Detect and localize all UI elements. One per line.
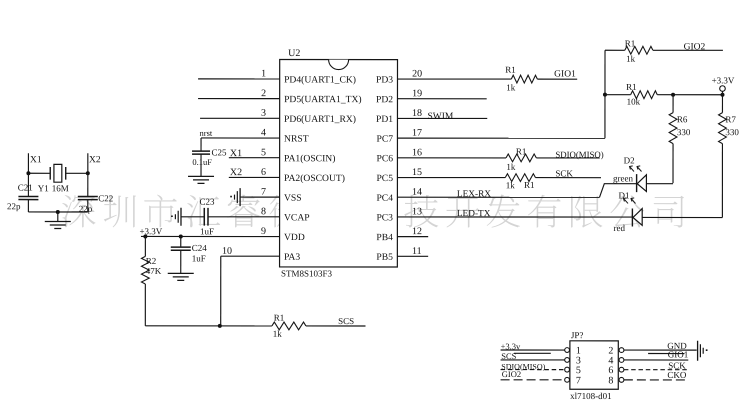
svg-text:+3.3v: +3.3v xyxy=(501,341,521,351)
svg-text:R6: R6 xyxy=(677,114,688,124)
ground (sideways right) xyxy=(697,341,699,361)
svg-text:1k: 1k xyxy=(506,162,516,172)
svg-text:GIO2: GIO2 xyxy=(684,42,706,52)
svg-text:1: 1 xyxy=(261,68,266,79)
svg-text:R1: R1 xyxy=(626,82,637,92)
crystal Y1 16M xyxy=(49,167,51,180)
wire xyxy=(28,211,87,213)
net GIO1 xyxy=(537,78,577,80)
node X2 xyxy=(87,153,89,173)
svg-text:NRST: NRST xyxy=(284,134,309,145)
svg-text:PA2(OSCOUT): PA2(OSCOUT) xyxy=(284,173,345,184)
svg-text:LED-TX: LED-TX xyxy=(457,209,491,219)
svg-text:PB5: PB5 xyxy=(376,252,393,263)
resistor R1 1k (SCK) xyxy=(505,174,535,182)
watermark text 深圳市汇睿微通科技开发有限公司 xyxy=(62,194,684,228)
svg-text:STM8S103F3: STM8S103F3 xyxy=(281,268,333,278)
svg-text:11: 11 xyxy=(412,246,422,257)
svg-text:12: 12 xyxy=(412,226,422,237)
svg-text:VSS: VSS xyxy=(284,193,302,204)
junction xyxy=(218,324,222,328)
junction xyxy=(179,234,183,238)
svg-text:14: 14 xyxy=(412,187,422,198)
net SCS xyxy=(306,325,366,327)
wire SDIO(MISO) to pin5 (dashed) xyxy=(501,369,565,371)
svg-text:PC4: PC4 xyxy=(376,193,393,204)
svg-text:+3.3V: +3.3V xyxy=(139,226,162,236)
svg-text:PC3: PC3 xyxy=(376,212,393,223)
svg-text:PD6(UART1_RX): PD6(UART1_RX) xyxy=(284,114,356,125)
wire pin4 xyxy=(624,359,688,361)
svg-text:2: 2 xyxy=(261,88,266,99)
svg-text:SCS: SCS xyxy=(501,351,516,361)
svg-text:X2: X2 xyxy=(230,167,242,178)
IC U2 STM8S103F3 xyxy=(280,60,398,267)
net LED-TX / wire pin13 xyxy=(397,216,632,218)
svg-text:330: 330 xyxy=(677,127,691,137)
svg-text:10: 10 xyxy=(222,246,232,257)
svg-text:1k: 1k xyxy=(273,329,283,339)
net GIO1 xyxy=(648,352,684,354)
svg-text:+3.3V: +3.3V xyxy=(712,75,735,85)
svg-text:R7: R7 xyxy=(725,114,736,124)
resistor R2 47K xyxy=(144,236,146,256)
svg-text:1k: 1k xyxy=(626,54,636,64)
svg-text:PD2: PD2 xyxy=(376,94,393,105)
svg-text:SWIM: SWIM xyxy=(427,112,453,122)
svg-text:6: 6 xyxy=(261,167,266,178)
svg-text:PD1: PD1 xyxy=(376,114,393,125)
svg-text:JP?: JP? xyxy=(571,330,584,340)
svg-text:X2: X2 xyxy=(89,155,101,165)
net LEX-RX / wire pin14 xyxy=(397,196,599,198)
svg-text:PA1(OSCIN): PA1(OSCIN) xyxy=(284,153,335,164)
wire pin3 xyxy=(200,117,280,119)
svg-text:20: 20 xyxy=(412,69,422,80)
ground xyxy=(57,212,59,222)
svg-text:3: 3 xyxy=(261,108,266,119)
svg-text:15: 15 xyxy=(412,167,422,178)
svg-text:R2: R2 xyxy=(146,256,157,266)
power +3.3V xyxy=(721,91,723,94)
wire pin16 xyxy=(397,157,506,159)
LED D1 red xyxy=(631,208,633,226)
resistor R1 1k (SCS) xyxy=(272,322,306,330)
svg-text:8: 8 xyxy=(261,206,266,217)
wire pin11 xyxy=(397,255,428,257)
wire D2 anode xyxy=(646,183,673,185)
svg-text:16M: 16M xyxy=(52,183,69,193)
ground (sideways) xyxy=(180,208,182,226)
connector JP? xl7108-d01 xyxy=(570,341,618,389)
svg-text:16: 16 xyxy=(412,147,422,158)
ground xyxy=(168,272,194,274)
LED D2 green xyxy=(636,174,638,192)
wire pin10 PA3 xyxy=(221,255,280,257)
wire SCS to pin3 xyxy=(501,359,565,361)
svg-text:U2: U2 xyxy=(288,48,300,59)
node X1 xyxy=(27,153,29,173)
svg-text:VCAP: VCAP xyxy=(284,212,310,223)
net SDIO(MISO) xyxy=(536,157,599,159)
svg-text:PD5(UARTA1_TX): PD5(UARTA1_TX) xyxy=(284,94,362,105)
junction xyxy=(603,93,607,97)
capacitor C22 22p xyxy=(87,173,89,196)
svg-text:green: green xyxy=(613,173,633,183)
svg-text:PA3: PA3 xyxy=(284,252,300,263)
net nrst / wire pin4 xyxy=(201,137,280,139)
svg-text:19: 19 xyxy=(412,88,422,99)
svg-text:GIO1: GIO1 xyxy=(668,349,689,359)
svg-text:330: 330 xyxy=(725,127,739,137)
svg-text:red: red xyxy=(613,223,625,233)
svg-text:PD4(UART1_CK): PD4(UART1_CK) xyxy=(284,74,356,85)
junction xyxy=(86,171,90,175)
svg-text:GIO2: GIO2 xyxy=(502,369,521,379)
svg-text:1uF: 1uF xyxy=(192,253,206,263)
wire pin1 xyxy=(198,78,280,80)
svg-text:Y1: Y1 xyxy=(38,183,49,193)
svg-text:7: 7 xyxy=(576,375,581,386)
svg-text:17: 17 xyxy=(412,128,422,139)
net SCK / wire pin6 (dashed) xyxy=(624,369,688,371)
svg-text:7: 7 xyxy=(261,187,266,198)
wire D1 anode xyxy=(642,216,722,218)
svg-text:X1: X1 xyxy=(30,155,42,165)
wire pin2 xyxy=(198,98,280,100)
wire pin2 to GND xyxy=(624,349,697,351)
junction xyxy=(56,210,60,214)
capacitor C24 1uF xyxy=(180,236,182,247)
wire pin8 xyxy=(181,216,204,218)
svg-text:PC7: PC7 xyxy=(376,134,393,145)
wire +3.3v to pin1 xyxy=(501,349,565,351)
svg-text:nrst: nrst xyxy=(200,128,213,138)
svg-text:1k: 1k xyxy=(506,180,516,190)
svg-text:R1: R1 xyxy=(274,313,285,323)
net CKO / wire pin8 (dash-dot) xyxy=(624,379,687,381)
junction xyxy=(26,171,30,175)
svg-text:C22: C22 xyxy=(98,193,113,203)
svg-text:1uF: 1uF xyxy=(200,226,214,236)
resistor R1 10k xyxy=(605,94,631,96)
junction xyxy=(671,93,675,97)
svg-text:C21: C21 xyxy=(18,183,33,193)
svg-text:9: 9 xyxy=(261,226,266,237)
svg-text:SCS: SCS xyxy=(338,316,354,326)
resistor R7 330 xyxy=(721,95,723,113)
svg-text:SCK: SCK xyxy=(555,168,573,178)
svg-text:R1: R1 xyxy=(505,65,516,75)
svg-text:13: 13 xyxy=(412,206,422,217)
net GIO2 xyxy=(653,49,723,51)
wire jog to D2 xyxy=(600,184,631,198)
svg-text:18: 18 xyxy=(412,108,422,119)
svg-text:0.1uF: 0.1uF xyxy=(192,157,212,167)
wire pin17 (PC7) xyxy=(397,137,604,139)
junction xyxy=(143,234,147,238)
svg-text:D2: D2 xyxy=(624,155,635,165)
resistor R1 1k (SDIO) xyxy=(506,154,536,162)
svg-text:R1: R1 xyxy=(524,180,535,190)
svg-text:CKO: CKO xyxy=(667,370,687,380)
svg-text:C25: C25 xyxy=(212,147,228,157)
junction xyxy=(720,93,724,97)
net SWIM / wire pin18 xyxy=(397,117,487,119)
wire pin19 xyxy=(397,98,486,100)
wire to R1 (GIO2) xyxy=(605,49,625,51)
svg-text:xl7108-d01: xl7108-d01 xyxy=(570,391,612,401)
svg-text:R1: R1 xyxy=(516,146,527,156)
svg-text:GIO1: GIO1 xyxy=(554,70,576,80)
net X1 / wire pin5 xyxy=(229,157,280,159)
svg-text:VDD: VDD xyxy=(284,232,305,243)
ground xyxy=(188,175,214,177)
svg-text:PD3: PD3 xyxy=(376,75,393,86)
svg-text:22p: 22p xyxy=(7,201,21,211)
wire pin12 xyxy=(397,236,428,238)
wire PA3 bottom xyxy=(145,325,272,327)
capacitor C21 22p xyxy=(27,173,29,196)
capacitor C23 1uF xyxy=(203,208,205,226)
wire to +3.3V xyxy=(657,94,722,96)
wire xyxy=(66,172,88,174)
resistor R6 330 xyxy=(672,95,674,113)
wire GIO2 to pin7 (dashed) xyxy=(501,379,565,381)
svg-text:PB4: PB4 xyxy=(376,232,393,243)
resistor R1 1k (GIO1) xyxy=(511,75,537,83)
svg-text:SDIO(MISO): SDIO(MISO) xyxy=(555,150,603,160)
svg-text:4: 4 xyxy=(261,128,266,139)
svg-text:D1: D1 xyxy=(619,190,630,200)
svg-text:8: 8 xyxy=(608,375,613,386)
power +3.3V / wire pin9 VDD xyxy=(141,235,280,237)
capacitor C25 0.1uF xyxy=(200,138,202,151)
svg-text:R1: R1 xyxy=(625,38,636,48)
svg-text:PC5: PC5 xyxy=(376,173,393,184)
wire pin7 VSS xyxy=(240,196,279,198)
ground (sideways) xyxy=(239,188,241,206)
svg-text:5: 5 xyxy=(261,147,266,158)
svg-text:PC6: PC6 xyxy=(376,153,393,164)
svg-text:C23: C23 xyxy=(199,197,215,207)
svg-text:1k: 1k xyxy=(506,82,516,92)
svg-text:X1: X1 xyxy=(230,148,242,159)
net SCK xyxy=(536,177,602,179)
resistor R1 1k (GIO2) xyxy=(625,46,653,54)
svg-text:C24: C24 xyxy=(192,243,208,253)
svg-text:10k: 10k xyxy=(627,97,641,107)
svg-text:LEX-RX: LEX-RX xyxy=(457,189,491,199)
net X2 / wire pin6 xyxy=(229,176,280,178)
svg-text:47K: 47K xyxy=(146,266,162,276)
wire pin20 xyxy=(397,78,511,80)
wire pin15 xyxy=(397,177,505,179)
wire xyxy=(28,172,50,174)
